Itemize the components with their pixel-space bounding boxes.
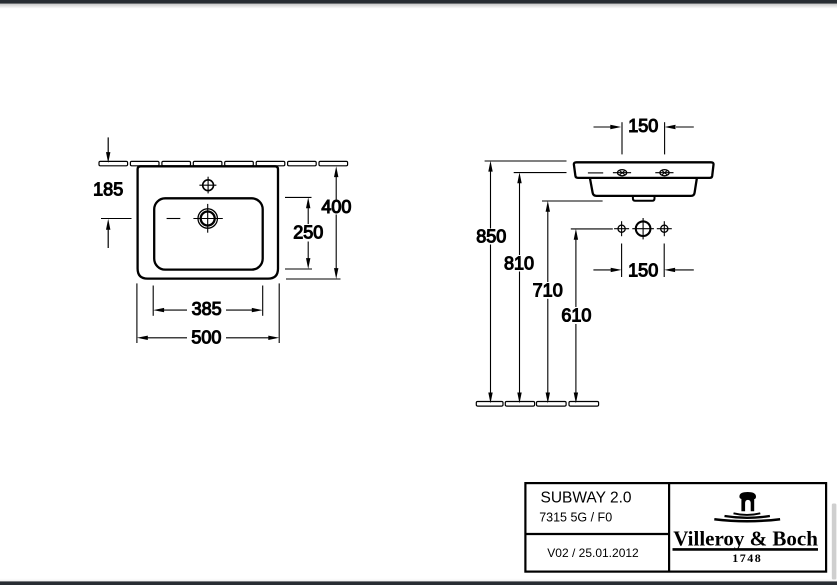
svg-text:400: 400: [321, 197, 351, 217]
svg-text:150: 150: [628, 261, 658, 281]
svg-text:850: 850: [476, 227, 506, 247]
V&B logo ripple 3: [714, 519, 780, 521]
dim 150 (top): [594, 116, 694, 136]
basin outer body (front view): [138, 166, 278, 278]
dim 385 (bottom inner): [153, 286, 263, 320]
dim 710: [533, 201, 603, 404]
title block horizontal divider: [525, 533, 669, 535]
svg-text:385: 385: [192, 299, 222, 319]
basin inner bowl (front view): [154, 198, 263, 269]
svg-text:7315 5G / F0: 7315 5G / F0: [539, 511, 612, 525]
dim 400 (right): [286, 166, 351, 279]
svg-text:250: 250: [293, 223, 323, 243]
dim 185 (left): [93, 137, 131, 248]
wall tile line (front view): [99, 161, 348, 165]
dim 610: [561, 229, 612, 404]
centerline left fixing hole: [621, 122, 623, 178]
V&B logo arch: [739, 492, 756, 511]
svg-text:Villeroy & Boch: Villeroy & Boch: [673, 527, 818, 551]
right tap-hole circle: [657, 221, 672, 236]
right edge gray strip: [832, 504, 837, 580]
faucet hole: [199, 177, 216, 194]
bottom dark bar: [0, 581, 837, 585]
basin bowl (side/installation view): [590, 178, 697, 196]
overflow hole: [167, 204, 223, 233]
svg-text:710: 710: [533, 281, 563, 301]
dim 150 (lower): [593, 244, 693, 281]
V&B logo ripple 2: [725, 516, 770, 518]
svg-text:185: 185: [93, 180, 123, 200]
svg-text:150: 150: [628, 116, 658, 136]
svg-text:SUBWAY 2.0: SUBWAY 2.0: [541, 490, 632, 507]
V&B logo ripple 1: [734, 513, 761, 515]
dim 810: [504, 172, 567, 403]
right fixing hole: [655, 170, 673, 176]
floor tile line: [476, 402, 598, 407]
svg-text:V02 / 25.01.2012: V02 / 25.01.2012: [547, 546, 639, 560]
title block frame: [525, 483, 826, 571]
drain hole center circle: [632, 218, 654, 239]
dim 850: [476, 161, 566, 404]
svg-text:1748: 1748: [732, 551, 762, 565]
left tap-hole circle: [614, 221, 629, 236]
drain stub: [633, 196, 655, 201]
title block vertical divider: [668, 483, 670, 571]
svg-text:500: 500: [191, 327, 221, 347]
svg-text:610: 610: [561, 306, 591, 326]
centerline right fixing hole: [664, 122, 666, 178]
svg-text:810: 810: [504, 253, 534, 273]
left fixing hole: [613, 170, 631, 176]
basin rim (side/installation view): [574, 162, 714, 178]
top dark bar: [0, 0, 837, 4]
dim 250 (right inner): [285, 197, 323, 269]
rim centerline dash: [588, 172, 603, 174]
V&B wordmark underline: [673, 548, 819, 551]
dim 500 (bottom outer): [137, 283, 279, 347]
